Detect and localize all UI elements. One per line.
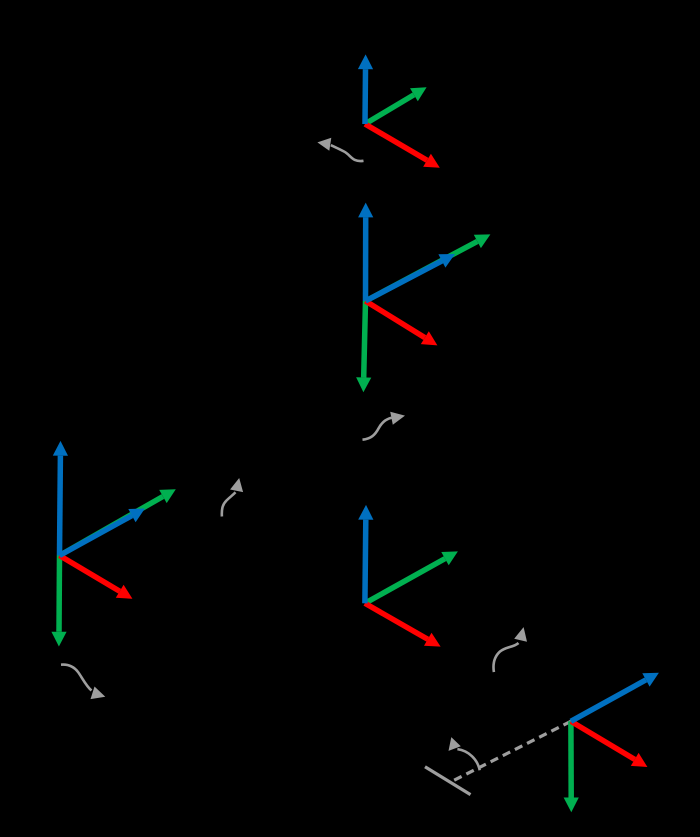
frame F2 y-axis diagonal (green) [366, 234, 491, 301]
rotation arrow A1 (curved, pointing left) [317, 138, 363, 161]
frame F3 y-axis rotated diagonal (blue) [60, 509, 145, 556]
frame F3 y-axis diagonal (green) [60, 489, 176, 555]
rotation arrow A2 (curved, pointing right) [363, 412, 406, 440]
frame F4 z-axis (blue) [358, 505, 373, 603]
frame F2 x-axis (red) [366, 301, 438, 345]
frame F5 x-axis (red) [571, 721, 648, 767]
frame F2 z-axis down (green) [356, 301, 371, 392]
frame F1 z-axis (blue) [358, 54, 373, 124]
solid gray ground line [425, 767, 471, 795]
rotation arrow A3 (curved, pointing up-right) [222, 478, 243, 517]
frame F3 z-axis down (green) [51, 556, 66, 647]
frame F3 z-axis up (blue) [53, 441, 68, 556]
frame F1 y-axis (green) [365, 87, 427, 124]
frame F4 x-axis (red) [365, 603, 441, 646]
dashed gray reference line [452, 721, 571, 781]
frame F2 y-axis rotated diagonal (blue) [366, 254, 456, 301]
frame F4 y-axis (green) [365, 551, 458, 603]
rotation arrow A5 (curved, pointing up-right) [494, 627, 527, 672]
frame F5 y-axis diagonal (blue) [571, 673, 659, 722]
frame F5 z-axis down (green) [564, 721, 579, 812]
angle arc arrow (gray) [449, 737, 480, 770]
rotation arrow A4 (curved, pointing down-right) [61, 665, 105, 699]
frame F1 x-axis (red) [365, 124, 440, 168]
frame F3 x-axis (red) [60, 556, 133, 599]
frame F2 z-axis up (blue) [358, 203, 373, 301]
